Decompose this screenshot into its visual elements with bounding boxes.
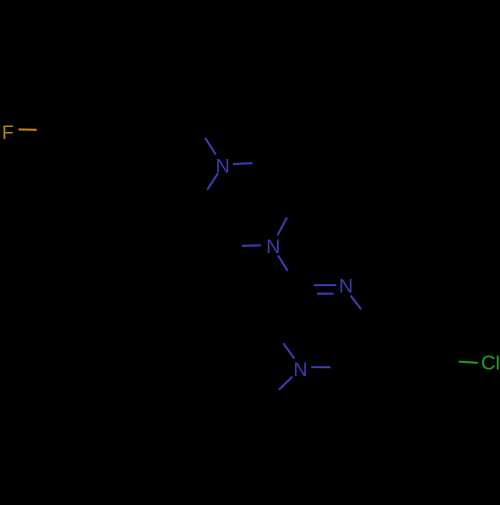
svg-text:N: N (293, 359, 307, 381)
wire F-C1 carbon half (37, 129, 55, 132)
visible heteroatom bond halves (19, 129, 478, 389)
benzo ring of quinoxaline (350, 322, 441, 406)
double bond C2q=N3 main line nitrogen half (314, 284, 336, 286)
bond N4-C4a nitrogen half (311, 366, 330, 368)
bond CH2-N1 nitrogen half (205, 138, 216, 155)
bond N1-Cr1 nitrogen half (233, 162, 253, 165)
wire N1-Cr1 carbon half (253, 161, 272, 164)
benzo inner aromatic lines (362, 331, 431, 397)
wire C3q-C2q (272, 286, 297, 328)
fluorophenyl inner aromatic lines (67, 99, 138, 160)
svg-text:N: N (266, 236, 280, 258)
svg-text:N: N (216, 155, 230, 177)
double bond C2q=N3 inner line nitrogen half (317, 293, 334, 295)
wire C6-Cl carbon half (441, 360, 459, 361)
bond C6-Cl chlorine half (459, 362, 478, 363)
svg-text:N: N (339, 275, 353, 297)
wire N2-C2q carbon half (288, 271, 298, 286)
wire N4-C4a carbon half (331, 366, 350, 368)
wire CH2-N1 carbon half (195, 122, 206, 139)
wire C4-CH2 (150, 122, 195, 132)
fluorophenyl ring (55, 90, 150, 172)
bond N2-Cr3 nitrogen half (242, 244, 261, 246)
carbon skeleton (near-invisible dark gray) (37, 90, 459, 406)
bond N4-C3q nitrogen half (283, 343, 294, 358)
wire N4-CH3 carbon half (268, 390, 279, 401)
bond N1-Cr2 nitrogen half (207, 173, 218, 190)
bond N2-C2q nitrogen half (278, 256, 288, 271)
atom labels (2, 122, 500, 381)
svg-text:F: F (2, 122, 14, 144)
bond N2-Cr4 nitrogen half (278, 217, 288, 235)
bond N3-C8a nitrogen half (351, 296, 362, 310)
wire N1-Cr2 carbon half (197, 190, 208, 207)
wire N4-C3q carbon half (272, 328, 283, 343)
wire N2-Cr3 carbon half (223, 245, 242, 247)
wire C2q=N3 main line carbon half (297, 284, 314, 286)
bond N4-CH3 nitrogen half (279, 377, 292, 390)
svg-text:CI: CI (481, 352, 500, 374)
wire Cr2-Cr3 (197, 206, 224, 246)
wire C2q=N3 inner line carbon half (303, 293, 317, 295)
wire Cr1-Cr4 (272, 162, 297, 199)
wire N2-Cr4 carbon half (287, 200, 297, 218)
bond F-C1 fluorine half (19, 128, 37, 130)
wire N3-C8a carbon half (361, 309, 372, 323)
